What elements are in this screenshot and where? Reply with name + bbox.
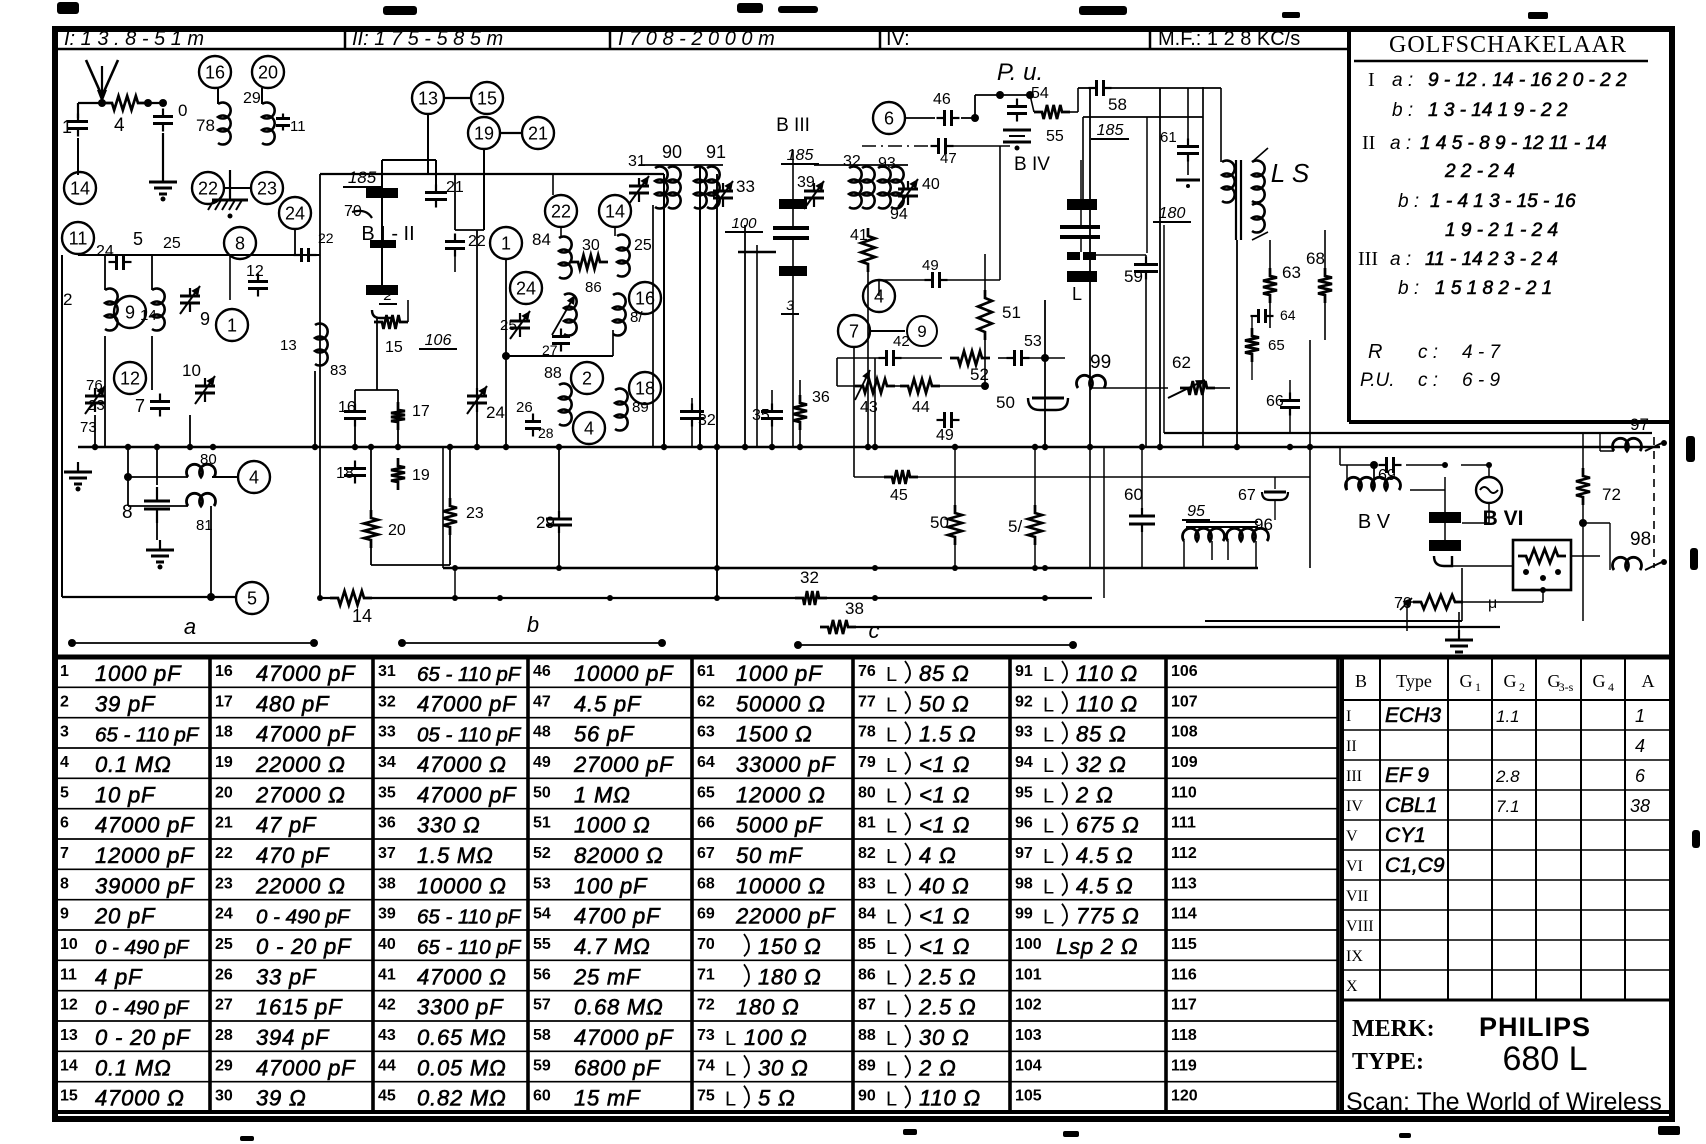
- coil 97coil: [1613, 438, 1642, 451]
- svg-text:L: L: [1043, 816, 1054, 838]
- value entry 49: [533, 752, 674, 777]
- svg-text:60: 60: [1124, 485, 1143, 504]
- value entry 27: [215, 995, 343, 1020]
- capacitor 12v: [248, 274, 268, 297]
- svg-text:61: 61: [697, 663, 715, 680]
- svg-text:1000 Ω: 1000 Ω: [574, 813, 651, 838]
- table bottom border: [55, 1110, 1672, 1114]
- svg-text:7: 7: [60, 845, 69, 862]
- svg-text:47000 Ω: 47000 Ω: [417, 964, 507, 989]
- svg-text:48: 48: [533, 724, 551, 741]
- svg-text:a :: a :: [1390, 249, 1411, 270]
- wire: [1183, 541, 1185, 568]
- value entry 120: [1171, 1088, 1198, 1105]
- tube BIII grid b: [773, 236, 809, 240]
- svg-text:I 7 0 8 - 2 0 0 0 m: I 7 0 8 - 2 0 0 0 m: [618, 28, 775, 50]
- coil 90b: [668, 167, 681, 209]
- svg-text:4: 4: [249, 467, 259, 487]
- value entry 90: [858, 1086, 981, 1111]
- svg-text:L: L: [886, 998, 897, 1020]
- value entry 28: [215, 1025, 330, 1050]
- svg-text:12: 12: [60, 997, 78, 1014]
- svg-text:49: 49: [922, 257, 939, 274]
- capacitor 7: [150, 394, 170, 417]
- svg-text:1 4 5 - 8 9 - 12 11 - 14: 1 4 5 - 8 9 - 12 11 - 14: [1420, 133, 1607, 154]
- svg-text:L: L: [886, 755, 897, 777]
- value entry 36: [378, 813, 481, 838]
- tube row V: [1346, 824, 1426, 847]
- value entry 12: [60, 997, 190, 1020]
- svg-text:<1 Ω: <1 Ω: [919, 904, 970, 929]
- wire: [212, 476, 238, 478]
- wire: [449, 447, 451, 498]
- value entry 34: [378, 752, 507, 777]
- svg-text:L: L: [1043, 876, 1054, 898]
- node 23: [251, 172, 283, 204]
- tube table column line: [1624, 657, 1626, 1000]
- LS core: [1235, 160, 1237, 240]
- svg-text:47000 pF: 47000 pF: [256, 1055, 356, 1080]
- golfschakelaar line 1 4 5 - 8 9 - 12 11 - 14: [1362, 132, 1607, 154]
- svg-text:L: L: [886, 694, 897, 716]
- junction: [797, 444, 803, 450]
- wire: [1324, 230, 1326, 268]
- value entry 63: [697, 722, 813, 747]
- wire: [874, 358, 876, 447]
- junction: [1042, 565, 1048, 571]
- resistor 51b: [1028, 505, 1042, 545]
- value entry 23: [215, 873, 346, 898]
- golfschakelaar line 2 2 - 2 4: [1444, 161, 1515, 182]
- svg-text:39: 39: [797, 174, 815, 191]
- ground BVI: [1445, 630, 1473, 660]
- svg-text:5: 5: [133, 229, 143, 249]
- wire: [944, 279, 1000, 281]
- svg-text:CBL1: CBL1: [1385, 794, 1438, 817]
- wire: [1211, 541, 1213, 560]
- bottom left wire: [62, 596, 236, 598]
- wire: [1252, 148, 1268, 162]
- svg-text:7: 7: [135, 396, 145, 416]
- wire: [217, 88, 219, 104]
- svg-text:IV:: IV:: [886, 28, 910, 50]
- value entry 58: [533, 1025, 674, 1050]
- golfschakelaar line 11 - 14 2 3 - 2 4: [1358, 248, 1558, 270]
- value entry 76: [858, 661, 970, 686]
- svg-text:23: 23: [215, 875, 233, 892]
- svg-text:64: 64: [1280, 307, 1296, 323]
- node 20: [252, 56, 284, 88]
- svg-text:108: 108: [1171, 724, 1198, 741]
- wire: [371, 564, 450, 566]
- node 22: [545, 195, 577, 227]
- svg-text:6: 6: [884, 108, 894, 128]
- svg-text:7: 7: [849, 321, 859, 341]
- svg-text:2: 2: [60, 693, 69, 710]
- svg-text:84: 84: [858, 906, 876, 923]
- wire: [476, 230, 478, 380]
- svg-text:106: 106: [425, 332, 452, 349]
- svg-text:330 Ω: 330 Ω: [417, 813, 481, 838]
- svg-text:39 pF: 39 pF: [95, 691, 156, 716]
- tube table row line: [1342, 879, 1672, 881]
- wire: [954, 447, 956, 505]
- svg-text:MERK:: MERK:: [1352, 1016, 1435, 1042]
- svg-text:4 Ω: 4 Ω: [919, 843, 956, 868]
- resistor 50b: [948, 505, 962, 545]
- svg-text:110 Ω: 110 Ω: [919, 1086, 981, 1111]
- wire: [1462, 522, 1489, 524]
- capacitor 0: [153, 109, 173, 132]
- value entry 114: [1171, 906, 1197, 923]
- wire: [792, 150, 794, 199]
- capacitor 49c: [937, 412, 960, 428]
- svg-text:24: 24: [215, 906, 233, 923]
- tube row IX: [1346, 948, 1363, 965]
- coil 84: [559, 237, 572, 279]
- resistor 45: [884, 470, 918, 484]
- wire 22-23: [224, 187, 251, 189]
- svg-text:99: 99: [1015, 906, 1033, 923]
- capacitor 53: [1007, 350, 1030, 366]
- table column divider: [371, 657, 375, 1112]
- value entry 15: [60, 1086, 185, 1111]
- coil 92: [849, 167, 862, 209]
- value entry 46: [533, 661, 674, 686]
- transformer 95-96 core: [1186, 521, 1258, 523]
- svg-text:TYPE:: TYPE:: [1352, 1049, 1424, 1075]
- tube row IV: [1346, 794, 1650, 817]
- wire: [1187, 157, 1189, 175]
- svg-text:45: 45: [378, 1088, 396, 1105]
- svg-text:69: 69: [697, 906, 715, 923]
- table row line: [57, 990, 1338, 992]
- svg-text:14: 14: [352, 606, 372, 626]
- svg-text:50: 50: [930, 513, 949, 532]
- wire: [771, 390, 773, 408]
- svg-text:4: 4: [60, 754, 69, 771]
- junction: [1026, 91, 1034, 99]
- table row line: [57, 808, 1338, 810]
- wire: [836, 358, 838, 386]
- coil 91a: [694, 167, 707, 209]
- wire: [614, 227, 616, 236]
- svg-text:0.1 MΩ: 0.1 MΩ: [95, 1055, 172, 1080]
- wire: [1582, 523, 1584, 621]
- svg-text:11: 11: [69, 228, 88, 248]
- svg-text:103: 103: [1015, 1027, 1042, 1044]
- svg-text:b :: b :: [1398, 278, 1419, 299]
- svg-text:18: 18: [215, 724, 233, 741]
- svg-text:74: 74: [697, 1057, 715, 1074]
- wire: [1542, 590, 1544, 602]
- svg-text:31: 31: [378, 663, 396, 680]
- coil 11 coil: [262, 102, 275, 144]
- svg-text:65 - 110 pF: 65 - 110 pF: [417, 906, 522, 929]
- svg-text:93: 93: [878, 155, 896, 172]
- vert 1104: [1103, 447, 1105, 598]
- value entry 25: [215, 934, 352, 959]
- wire: [189, 415, 191, 447]
- junction: [447, 444, 453, 450]
- value entry 8: [60, 873, 195, 898]
- svg-text:9: 9: [917, 322, 926, 341]
- table column divider: [690, 657, 694, 1112]
- svg-text:109: 109: [1171, 754, 1198, 771]
- svg-text:IV: IV: [1346, 798, 1363, 815]
- svg-text:65: 65: [697, 784, 715, 801]
- value entry 113: [1171, 875, 1197, 892]
- svg-text:82: 82: [858, 845, 876, 862]
- svg-text:9 - 12 . 14 - 16 2 0 - 2 2: 9 - 12 . 14 - 16 2 0 - 2 2: [1428, 70, 1627, 91]
- header divider line: [55, 48, 1349, 51]
- wire: [1251, 362, 1253, 380]
- battery 54: [1003, 130, 1031, 151]
- svg-text:EF 9: EF 9: [1385, 764, 1429, 787]
- svg-text:99: 99: [1090, 352, 1111, 373]
- svg-text:L: L: [725, 1089, 736, 1111]
- wire: [691, 422, 693, 447]
- svg-text:2: 2: [582, 368, 592, 388]
- value entry 109: [1171, 754, 1198, 771]
- wire: [500, 132, 522, 134]
- value entry 60: [533, 1086, 641, 1111]
- tube table left border: [1340, 657, 1344, 1112]
- wire: [1092, 387, 1168, 389]
- vert 1164: [1163, 225, 1165, 433]
- value entry 72: [697, 995, 800, 1020]
- svg-text:87: 87: [858, 997, 876, 1014]
- tube BIV grid b: [1060, 235, 1100, 239]
- resistor 20: [364, 510, 378, 548]
- wire: [128, 476, 188, 478]
- svg-text:116: 116: [1171, 966, 1197, 983]
- svg-text:L: L: [886, 967, 897, 989]
- wire: [1410, 489, 1445, 491]
- svg-text:0: 0: [178, 101, 187, 120]
- svg-text:20 pF: 20 pF: [94, 904, 156, 929]
- wire: [867, 272, 869, 447]
- svg-text:11: 11: [60, 966, 77, 983]
- resistor 23: [443, 498, 457, 535]
- value entry 22: [215, 843, 330, 868]
- variable capacitor 10: [195, 376, 215, 404]
- value entry 35: [378, 782, 517, 807]
- wire: [1346, 465, 1348, 490]
- svg-text:105: 105: [1015, 1088, 1042, 1105]
- wire: [1089, 447, 1091, 568]
- svg-text:180 Ω: 180 Ω: [736, 995, 800, 1020]
- value entry 39: [378, 906, 522, 929]
- wire res70 to BVI: [1463, 601, 1543, 603]
- svg-text:1 5 1 8 2 - 2 1: 1 5 1 8 2 - 2 1: [1435, 278, 1552, 299]
- wire: [814, 164, 908, 166]
- tube table row line: [1342, 849, 1672, 851]
- svg-text:92: 92: [1015, 693, 1033, 710]
- svg-text:0 - 490 pF: 0 - 490 pF: [95, 936, 190, 959]
- wire: [1406, 464, 1445, 466]
- value entry 108: [1171, 724, 1198, 741]
- resistor BVI heater: [1518, 549, 1566, 563]
- svg-text:104: 104: [1015, 1057, 1042, 1074]
- junction: [1307, 444, 1313, 450]
- svg-text:11: 11: [290, 118, 306, 135]
- svg-text:29: 29: [536, 513, 555, 532]
- svg-text:12: 12: [246, 263, 264, 280]
- vert 1462: [1461, 568, 1463, 621]
- arrow 86: [552, 295, 575, 335]
- wire: [1030, 95, 1034, 112]
- junction: [352, 444, 358, 450]
- svg-text:97: 97: [1015, 845, 1033, 862]
- table column divider: [208, 657, 212, 1112]
- tube row I: [1346, 704, 1645, 727]
- svg-text:24: 24: [486, 403, 505, 422]
- value entry 92: [1015, 691, 1138, 716]
- junction: [952, 565, 958, 571]
- svg-text:21: 21: [215, 815, 233, 832]
- wire: [483, 149, 485, 230]
- capacitor 5cap: [109, 254, 132, 270]
- table row line: [57, 868, 1338, 870]
- svg-text:L: L: [886, 846, 897, 868]
- svg-text:100 pF: 100 pF: [574, 873, 648, 898]
- svg-text:14: 14: [70, 178, 90, 198]
- svg-text:0.68 MΩ: 0.68 MΩ: [574, 995, 664, 1020]
- svg-text:100: 100: [1015, 936, 1042, 953]
- svg-text:G: G: [1504, 671, 1517, 691]
- svg-text:6 - 9: 6 - 9: [1462, 370, 1500, 391]
- vert 664: [663, 174, 665, 447]
- junction: [981, 382, 989, 390]
- pot 43: [855, 370, 870, 400]
- tube table column line: [1491, 657, 1493, 1000]
- capacitor 11cap: [276, 114, 290, 131]
- node 4: [238, 461, 270, 493]
- value entry 11: [60, 964, 143, 989]
- junction: [187, 444, 193, 450]
- header cell divider: [879, 29, 882, 49]
- dashed link: [1653, 437, 1655, 568]
- value entry 10: [60, 936, 190, 959]
- wire: [1571, 555, 1600, 557]
- wire: [974, 95, 976, 118]
- svg-text:96: 96: [1015, 815, 1033, 832]
- svg-text:78: 78: [196, 116, 215, 135]
- wire: [905, 117, 935, 119]
- svg-text:4 pF: 4 pF: [95, 964, 143, 989]
- tube BV cathode: [1434, 556, 1452, 566]
- svg-text:113: 113: [1171, 875, 1197, 892]
- svg-text:118: 118: [1171, 1027, 1197, 1044]
- svg-text:65 - 110 pF: 65 - 110 pF: [417, 663, 522, 686]
- svg-text:85 Ω: 85 Ω: [919, 661, 970, 686]
- svg-text:1500 Ω: 1500 Ω: [736, 722, 813, 747]
- value entry 56: [533, 964, 641, 989]
- svg-text:39: 39: [378, 906, 396, 923]
- svg-text:2.5 Ω: 2.5 Ω: [918, 995, 976, 1020]
- wire: [1215, 387, 1230, 389]
- wire: [1070, 111, 1078, 113]
- svg-text:52: 52: [533, 845, 551, 862]
- value entry 29: [215, 1055, 356, 1080]
- svg-text:72: 72: [697, 997, 715, 1014]
- header cell divider: [344, 29, 347, 49]
- resistor 32b: [795, 591, 827, 605]
- svg-text:5000 pF: 5000 pF: [736, 813, 823, 838]
- svg-text:32: 32: [698, 412, 716, 429]
- svg-text:B IV: B IV: [1014, 154, 1050, 175]
- svg-text:73: 73: [697, 1027, 715, 1044]
- svg-text:L: L: [886, 664, 897, 686]
- svg-text:68: 68: [697, 875, 715, 892]
- node 16: [629, 282, 661, 314]
- svg-text:III: III: [1346, 768, 1362, 785]
- svg-text:91: 91: [706, 142, 726, 162]
- svg-text:1615 pF: 1615 pF: [256, 995, 343, 1020]
- svg-text:1: 1: [1475, 680, 1481, 694]
- wire: [1026, 357, 1045, 359]
- junction: [368, 444, 374, 450]
- junction: [125, 444, 131, 450]
- vert 700: [699, 165, 701, 447]
- resistor 44: [900, 379, 940, 393]
- svg-text:G: G: [1593, 671, 1606, 691]
- svg-text:110: 110: [1171, 784, 1197, 801]
- node 16: [199, 56, 231, 88]
- svg-text:L: L: [886, 1058, 897, 1080]
- junction: [1234, 444, 1240, 450]
- golfschakelaar line 9 - 12 . 14 - 16 2 0 - 2 2: [1368, 69, 1627, 91]
- svg-text:16: 16: [635, 288, 655, 308]
- value entry 94: [1015, 752, 1127, 777]
- variable capacitor 33: [713, 181, 733, 209]
- junction: [697, 444, 703, 450]
- svg-text:47000 pF: 47000 pF: [574, 1025, 674, 1050]
- wire: [370, 548, 372, 565]
- junction: [971, 114, 979, 122]
- junction: [952, 444, 958, 450]
- svg-text:2 Ω: 2 Ω: [918, 1055, 956, 1080]
- svg-text:25 mF: 25 mF: [573, 964, 641, 989]
- svg-text:33: 33: [378, 724, 396, 741]
- resistor 62: [1180, 381, 1215, 395]
- value entry 110: [1171, 784, 1197, 801]
- wire: [354, 423, 356, 447]
- wire: [376, 318, 378, 390]
- svg-text:394 pF: 394 pF: [256, 1025, 330, 1050]
- svg-text:58: 58: [1108, 95, 1127, 114]
- value entry 115: [1171, 936, 1197, 953]
- wire 19 grid: [455, 229, 484, 231]
- vert 1160: [1159, 88, 1161, 447]
- ground left: [64, 462, 92, 492]
- svg-text:B: B: [1355, 671, 1367, 691]
- svg-text:1: 1: [60, 663, 69, 680]
- svg-text:83: 83: [858, 875, 876, 892]
- wire: [940, 385, 985, 387]
- svg-text:24: 24: [285, 203, 305, 223]
- svg-text:1000 pF: 1000 pF: [736, 661, 823, 686]
- header cell divider: [609, 29, 612, 49]
- svg-text:22: 22: [215, 845, 233, 862]
- junction: [1032, 565, 1038, 571]
- svg-text:L: L: [1043, 664, 1054, 686]
- junction: [317, 595, 323, 601]
- wire: [476, 380, 478, 447]
- switch 97: [1645, 443, 1662, 451]
- tube BI-II grid2: [370, 240, 396, 248]
